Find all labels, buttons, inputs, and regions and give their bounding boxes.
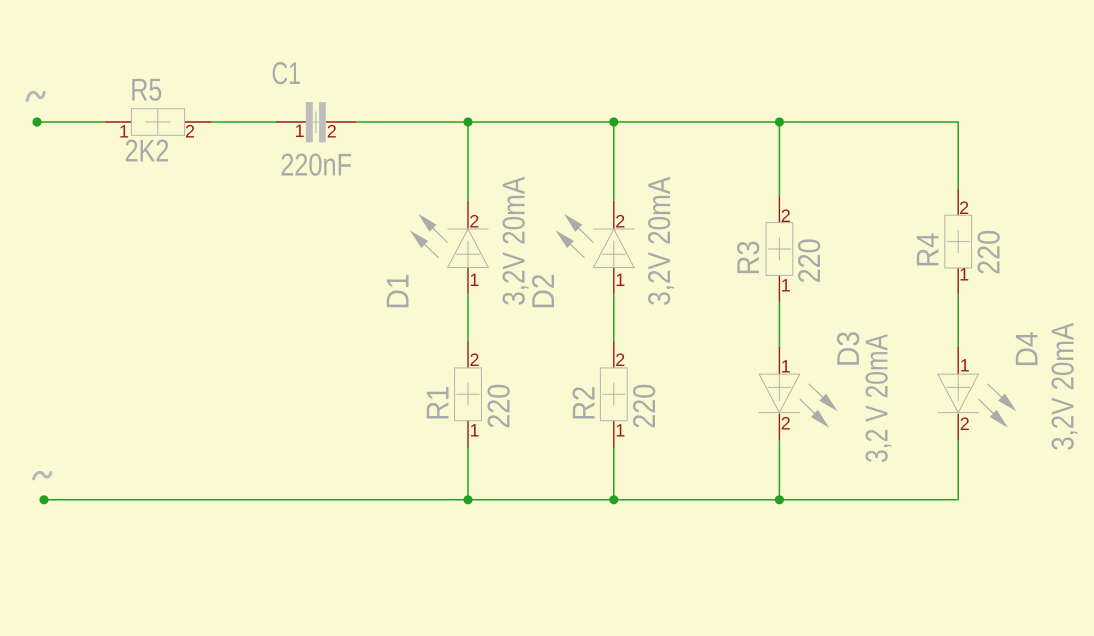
svg-text:220: 220 <box>970 230 1006 275</box>
svg-text:220: 220 <box>791 238 827 283</box>
svg-text:1: 1 <box>469 270 479 290</box>
svg-text:R3: R3 <box>730 240 766 275</box>
svg-text:1: 1 <box>615 270 625 290</box>
svg-text:D1: D1 <box>379 274 415 310</box>
svg-text:2: 2 <box>470 350 480 370</box>
svg-text:2: 2 <box>781 206 791 226</box>
svg-text:1: 1 <box>295 121 305 141</box>
svg-text:R4: R4 <box>910 233 946 268</box>
svg-text:220: 220 <box>481 384 517 429</box>
svg-text:2: 2 <box>781 414 791 434</box>
svg-text:3,2 V 20mA: 3,2 V 20mA <box>859 334 895 463</box>
svg-text:2: 2 <box>615 212 625 232</box>
svg-text:220nF: 220nF <box>280 146 352 182</box>
svg-text:2: 2 <box>469 212 479 232</box>
svg-text:1: 1 <box>781 275 791 295</box>
svg-text:D4: D4 <box>1008 331 1044 367</box>
svg-text:R2: R2 <box>565 386 601 421</box>
svg-text:3,2V 20mA: 3,2V 20mA <box>641 177 677 306</box>
svg-text:3,2V 20mA: 3,2V 20mA <box>1044 323 1080 451</box>
svg-text:R1: R1 <box>420 386 456 421</box>
svg-text:2K2: 2K2 <box>125 133 170 169</box>
svg-text:1: 1 <box>959 265 969 285</box>
svg-text:1: 1 <box>781 357 791 377</box>
svg-text:220: 220 <box>626 384 662 429</box>
svg-text:2: 2 <box>615 350 625 370</box>
svg-text:1: 1 <box>470 421 480 441</box>
svg-text:2: 2 <box>327 121 337 141</box>
svg-text:2: 2 <box>959 198 969 218</box>
svg-text:1: 1 <box>615 421 625 441</box>
svg-text:D2: D2 <box>525 274 561 310</box>
svg-text:1: 1 <box>960 355 970 375</box>
svg-text:C1: C1 <box>272 55 302 91</box>
svg-text:2: 2 <box>185 122 195 142</box>
svg-text:R5: R5 <box>130 72 162 108</box>
svg-text:2: 2 <box>960 414 970 434</box>
